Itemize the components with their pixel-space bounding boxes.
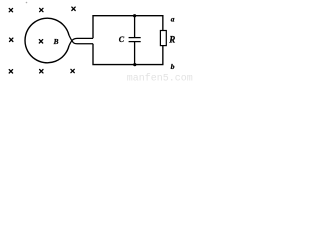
svg-text:B: B: [53, 37, 59, 46]
svg-text:b: b: [171, 62, 175, 71]
svg-text:a: a: [171, 14, 175, 23]
svg-text:R: R: [168, 34, 175, 44]
svg-text:C: C: [119, 35, 125, 44]
svg-text:manfen5.com: manfen5.com: [127, 73, 193, 83]
